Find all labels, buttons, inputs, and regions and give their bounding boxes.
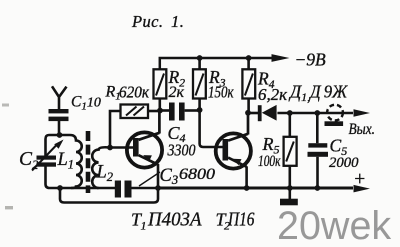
transistor T2 circle	[216, 133, 251, 168]
output jack dashed circle	[327, 105, 343, 121]
svg-text:2к: 2к	[169, 84, 185, 101]
wire tank frame top-left and left side	[46, 135, 61, 188]
svg-text:620к: 620к	[119, 83, 149, 102]
wire R1 left lead down	[110, 111, 121, 148]
wire R5 top lead	[288, 113, 291, 137]
node diode junction	[245, 110, 251, 116]
svg-text:C2: C2	[19, 149, 39, 172]
node C5 top	[314, 110, 320, 116]
T2 emitter with arrow	[228, 158, 247, 167]
inductor L2	[92, 147, 109, 188]
T1 base wire	[110, 146, 133, 149]
svg-text:C110: C110	[71, 94, 101, 113]
svg-text:П403А: П403А	[147, 209, 202, 231]
resistor R3	[193, 69, 206, 98]
node R5 top	[287, 110, 293, 116]
svg-text:Вых.: Вых.	[349, 121, 376, 138]
wire R1 to node	[148, 110, 160, 113]
svg-text:6800: 6800	[179, 166, 215, 183]
capacitor C1	[49, 109, 69, 121]
wire C4 to R3 node	[185, 109, 200, 112]
scan speck left edge 1	[2, 104, 9, 107]
resistor R2	[154, 69, 167, 98]
ground stub wire	[288, 188, 291, 199]
output jack sleeve bar	[325, 121, 344, 126]
C3 leader line	[139, 172, 160, 186]
node C5 rail	[315, 185, 321, 191]
svg-text:L2: L2	[96, 162, 114, 184]
svg-text:100к: 100к	[258, 153, 281, 170]
node R5 rail	[287, 185, 293, 191]
transistor T1 circle	[127, 132, 162, 167]
T1 emitter with arrow	[139, 155, 158, 164]
diode Д1 triangle	[262, 105, 277, 121]
capacitor C3	[115, 181, 132, 198]
node rail R3	[197, 55, 203, 61]
svg-text:150к: 150к	[208, 83, 234, 102]
resistor R5	[284, 137, 297, 166]
diode Д1 cathode bar	[258, 105, 262, 121]
bottom tank wire with C3 in series	[60, 187, 158, 190]
node L1 bottom	[57, 185, 63, 191]
top rail with arrow	[160, 58, 272, 69]
svg-text:L1: L1	[57, 150, 75, 172]
node tank top	[57, 132, 63, 138]
node R2/C4/T1 collector	[157, 108, 163, 114]
wire C1 to tank	[58, 121, 61, 135]
svg-text:Рис. 1.: Рис. 1.	[131, 12, 184, 31]
T1 collector	[139, 111, 160, 140]
arrow through C2	[32, 140, 64, 171]
T2 collector	[228, 113, 248, 141]
ground bar	[280, 199, 298, 206]
node T2 emitter rail	[244, 185, 250, 191]
svg-text:+: +	[353, 169, 366, 190]
capacitor C4	[169, 103, 185, 121]
svg-text:C3: C3	[160, 166, 179, 187]
resistor R1	[121, 105, 149, 119]
capacitor C5	[316, 113, 319, 188]
node rail R4	[246, 55, 252, 61]
output arrow	[354, 109, 371, 117]
wire node to C4	[160, 109, 169, 112]
resistor R4	[242, 69, 255, 98]
svg-text:1: 1	[141, 218, 147, 232]
lower bypass loop wire	[60, 188, 158, 203]
svg-text:20wek: 20wek	[277, 204, 391, 247]
scan speck left edge 2	[5, 206, 13, 209]
T1 base bar	[133, 138, 139, 157]
antenna	[52, 86, 67, 109]
transformer core	[86, 131, 91, 193]
capacitor C2 (variable)	[37, 156, 57, 167]
wire to diode	[248, 112, 259, 115]
bottom rail	[158, 187, 353, 190]
svg-text:Д1,Д 9Ж: Д1,Д 9Ж	[288, 82, 348, 104]
wire diode to output	[277, 112, 353, 115]
svg-text:3300: 3300	[167, 141, 196, 160]
node base T1	[107, 145, 113, 151]
svg-text:6,2к: 6,2к	[258, 85, 287, 104]
node T1 emitter rail	[155, 185, 161, 191]
node R3/base T2	[197, 107, 203, 113]
svg-text:−9В: −9В	[295, 50, 327, 70]
svg-text:П16: П16	[227, 209, 254, 231]
inductor L1	[60, 135, 82, 188]
wire to T2 base	[200, 110, 223, 147]
T2 base bar	[223, 139, 229, 161]
